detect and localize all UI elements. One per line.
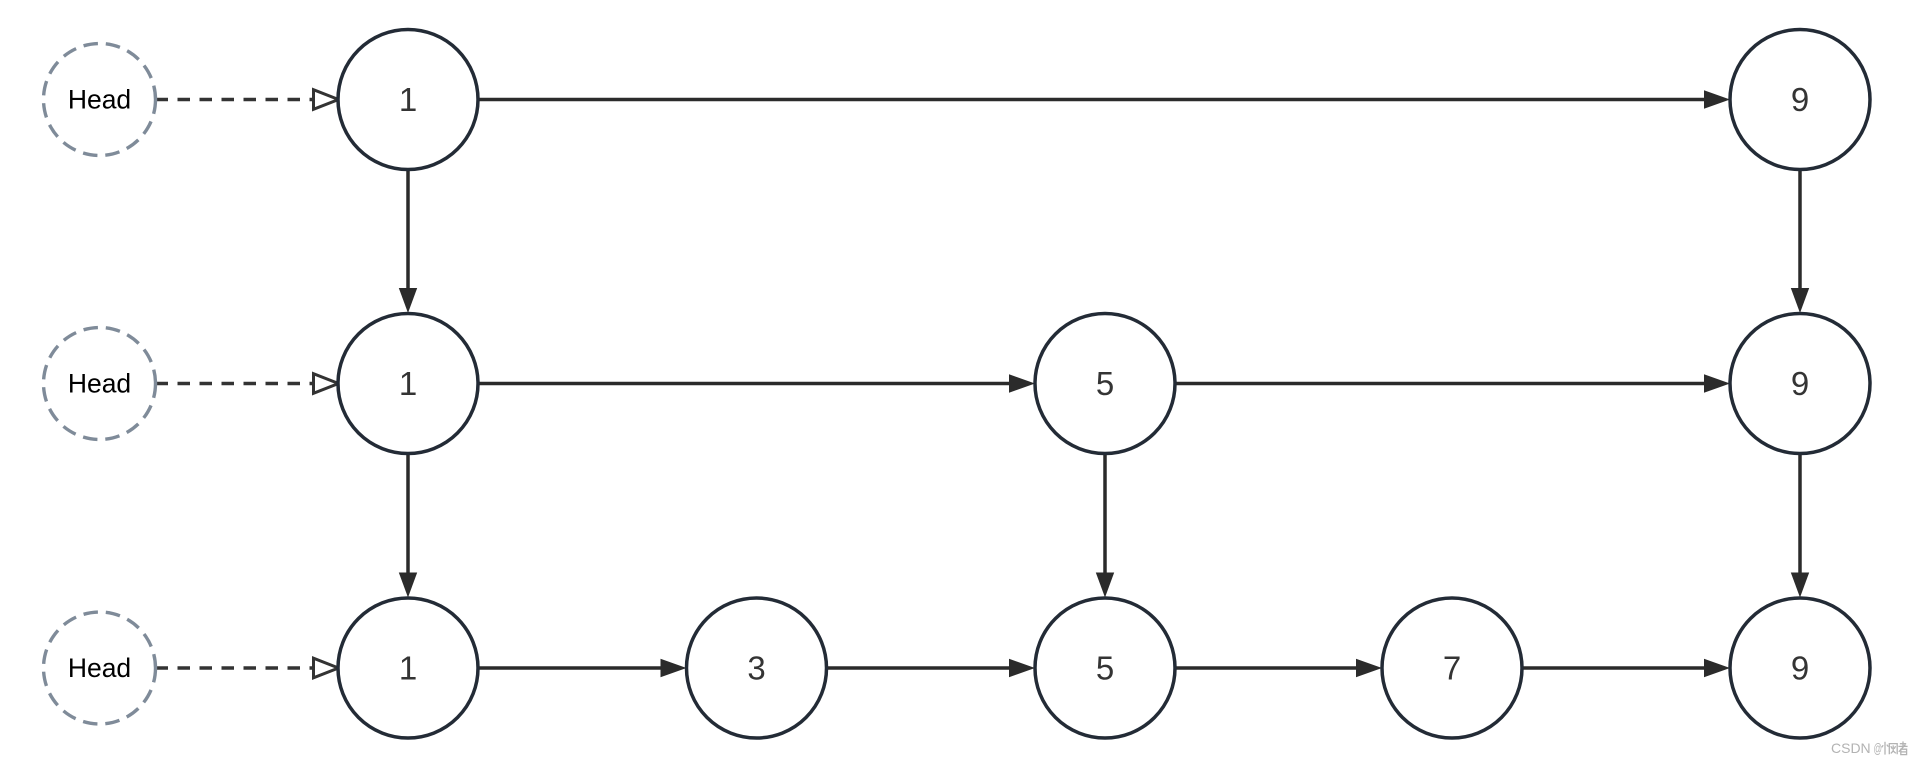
node 9 (level 3): [1730, 30, 1870, 170]
wire node1 L3 down to L2 (solid down arrow): [399, 170, 417, 314]
node 1 (level 2): [338, 314, 478, 454]
svg-text:CSDN: CSDN: [1831, 740, 1871, 756]
wire node9 L3 down to L2 (solid down arrow): [1791, 170, 1809, 314]
wire 1-9 level3 (solid arrow): [478, 90, 1730, 108]
svg-text:1: 1: [399, 365, 417, 402]
node 7 (level 1): [1382, 598, 1522, 738]
node 1 (level 1): [338, 598, 478, 738]
node 9 (level 2): [1730, 314, 1870, 454]
svg-text:9: 9: [1791, 81, 1809, 118]
svg-text:Head: Head: [68, 369, 131, 399]
wire H3 to node1 L1 (dashed arrow, open head): [156, 658, 339, 678]
node 1 (level 3): [338, 30, 478, 170]
wire node5 L2 down to L1 (solid down arrow): [1096, 454, 1114, 598]
wire 1-5 level2 (solid arrow): [478, 374, 1035, 392]
head pointer H3 (dashed circle): [44, 612, 156, 724]
svg-text:1: 1: [399, 81, 417, 118]
watermark glyph wang (CJK): [1882, 742, 1898, 755]
svg-text:3: 3: [747, 650, 765, 687]
node 5 (level 2): [1035, 314, 1175, 454]
svg-text:1: 1: [399, 650, 417, 687]
wire node9 L2 down to L1 (solid down arrow): [1791, 454, 1809, 598]
node 9 (level 1): [1730, 598, 1870, 738]
svg-text:5: 5: [1096, 650, 1114, 687]
wire 1-3 level1 (solid arrow): [478, 659, 687, 677]
head pointer H1 (dashed circle): [44, 44, 156, 156]
svg-text:Head: Head: [68, 653, 131, 683]
wire 5-7 level1 (solid arrow): [1175, 659, 1382, 677]
wire node1 L2 down to L1 (solid down arrow): [399, 454, 417, 598]
svg-text:9: 9: [1791, 650, 1809, 687]
svg-text:@: @: [1874, 740, 1883, 756]
wire 3-5 level1 (solid arrow): [827, 659, 1036, 677]
wire 7-9 level1 (solid arrow): [1522, 659, 1730, 677]
wire H1 to node1 L3 (dashed arrow, open head): [156, 90, 339, 110]
node 3 (level 1): [687, 598, 827, 738]
wire 5-9 level2 (solid arrow): [1175, 374, 1730, 392]
node 5 (level 1): [1035, 598, 1175, 738]
head pointer H2 (dashed circle): [44, 328, 156, 440]
svg-text:9: 9: [1791, 365, 1809, 402]
svg-text:Head: Head: [68, 85, 131, 115]
svg-text:7: 7: [1443, 650, 1461, 687]
watermark glyph zhe (CJK): [1898, 741, 1907, 754]
svg-text:5: 5: [1096, 365, 1114, 402]
wire H2 to node1 L2 (dashed arrow, open head): [156, 374, 339, 394]
